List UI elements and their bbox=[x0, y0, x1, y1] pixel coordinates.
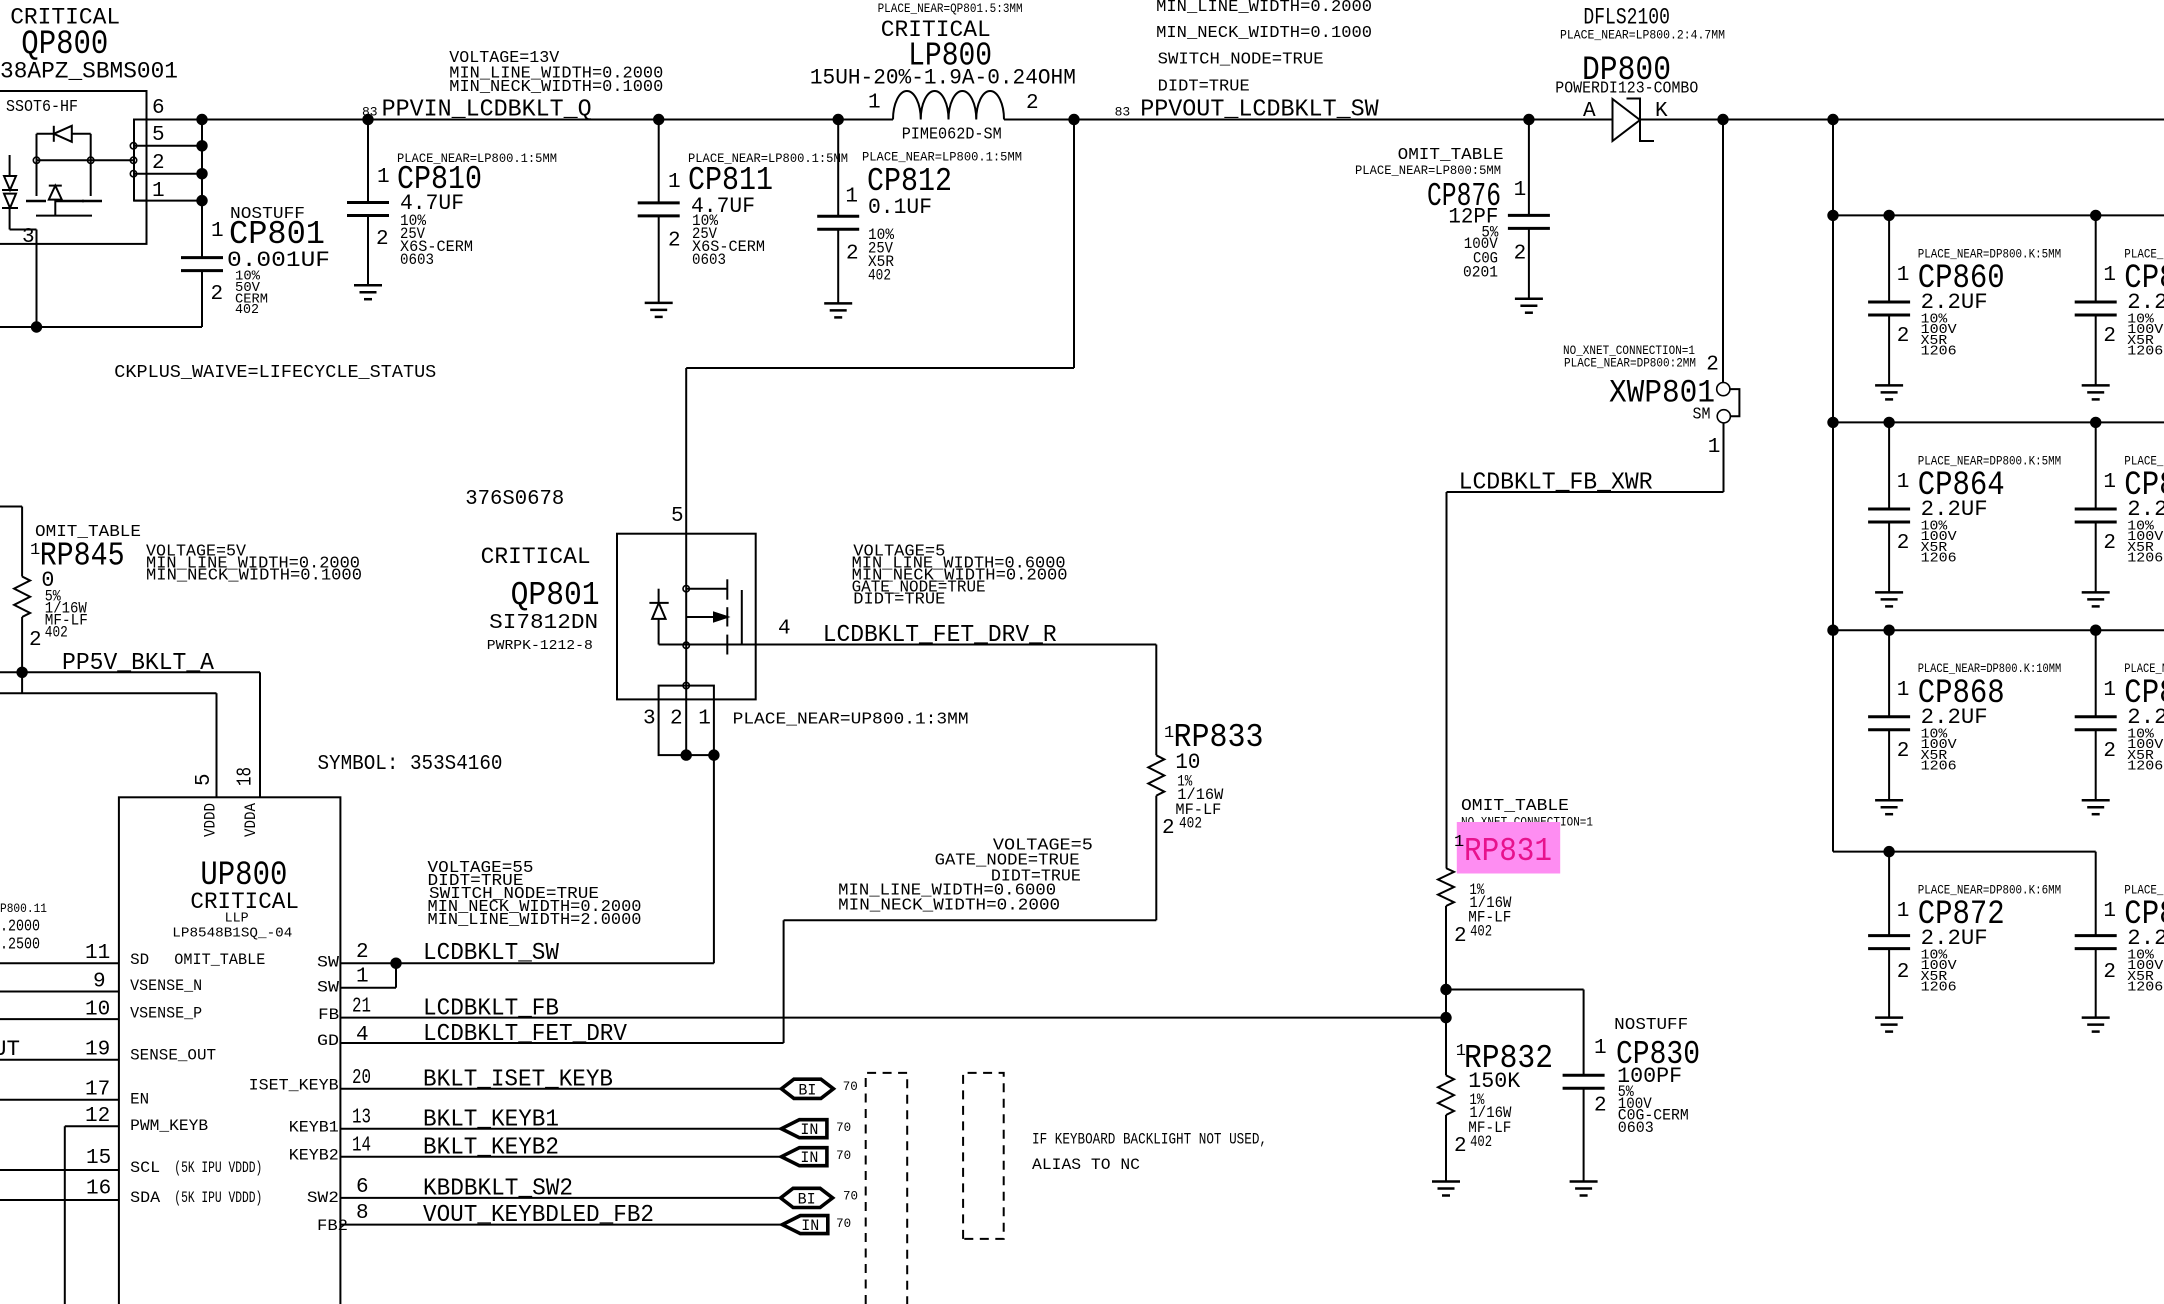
svg-text:9: 9 bbox=[93, 971, 106, 994]
svg-text:38APZ_SBMS001: 38APZ_SBMS001 bbox=[0, 59, 178, 85]
capacitor CP868 bbox=[1888, 630, 1890, 717]
junction QP801 pin2 bbox=[681, 749, 692, 760]
svg-text:FB2: FB2 bbox=[317, 1217, 348, 1235]
svg-text:KBDBKLT_SW2: KBDBKLT_SW2 bbox=[423, 1176, 573, 1203]
junction CP812 bbox=[833, 114, 844, 125]
svg-text:BI: BI bbox=[798, 1081, 816, 1099]
svg-text:VSENSE_P: VSENSE_P bbox=[130, 1005, 202, 1023]
wire VDDD supply bbox=[0, 692, 217, 694]
capacitor CP876 bbox=[1528, 120, 1530, 216]
junction QP801 pin1 bbox=[708, 749, 719, 760]
connector IN FB2 bbox=[782, 1216, 828, 1234]
svg-text:1: 1 bbox=[2103, 471, 2116, 494]
svg-text:MIN_NECK_WIDTH=0.1000: MIN_NECK_WIDTH=0.1000 bbox=[449, 77, 663, 96]
capacitor CP810 bbox=[367, 120, 369, 203]
capacitor CP873 bbox=[2095, 852, 2097, 936]
ground CP812 bbox=[824, 302, 852, 305]
svg-text:PLACE_NEAR=DP800:2MM: PLACE_NEAR=DP800:2MM bbox=[1564, 357, 1696, 371]
QP801 body diode bbox=[649, 602, 668, 604]
junction CP810 bbox=[362, 114, 373, 125]
svg-text:VDDA: VDDA bbox=[242, 802, 260, 837]
svg-text:5: 5 bbox=[671, 505, 684, 528]
junction col1 bbox=[1883, 846, 1894, 857]
svg-text:2.2UF: 2.2UF bbox=[1921, 926, 1988, 951]
svg-text:5: 5 bbox=[193, 773, 216, 786]
ground CP861 bbox=[2082, 384, 2110, 387]
svg-text:IN: IN bbox=[800, 1149, 818, 1167]
svg-text:NOSTUFF: NOSTUFF bbox=[1614, 1016, 1688, 1035]
wire QP800 pin1 bbox=[134, 200, 202, 202]
svg-text:MIN_NECK_WIDTH=0.1000: MIN_NECK_WIDTH=0.1000 bbox=[146, 566, 362, 585]
QP800 internal diode D2 bbox=[49, 185, 62, 187]
svg-text:(5K IPU VDDD): (5K IPU VDDD) bbox=[174, 1189, 262, 1207]
svg-text:0603: 0603 bbox=[400, 251, 434, 269]
svg-text:MIN_NECK_WIDTH=0.2000: MIN_NECK_WIDTH=0.2000 bbox=[838, 895, 1060, 914]
junction rail-bus bbox=[1827, 417, 1838, 428]
svg-text:PWM_KEYB: PWM_KEYB bbox=[130, 1117, 208, 1135]
svg-text:DFLS2100: DFLS2100 bbox=[1583, 5, 1670, 31]
svg-text:17: 17 bbox=[85, 1079, 110, 1102]
wire UP800 pin 19 bbox=[0, 1059, 119, 1061]
capacitor CP860 bbox=[1888, 215, 1890, 302]
svg-text:VDDD: VDDD bbox=[202, 803, 220, 837]
svg-text:1: 1 bbox=[1514, 179, 1527, 202]
junction PP5V bbox=[16, 667, 27, 678]
svg-text:LCDBKLT_FB: LCDBKLT_FB bbox=[423, 996, 559, 1023]
capacitor CP861 bbox=[2095, 215, 2097, 302]
svg-text:1: 1 bbox=[1454, 833, 1464, 852]
svg-text:1: 1 bbox=[698, 708, 711, 731]
svg-text:1: 1 bbox=[2103, 679, 2116, 702]
resistor RP831 bbox=[1438, 868, 1454, 906]
ground CP830 bbox=[1570, 1180, 1598, 1183]
ground CP869 bbox=[2082, 799, 2110, 802]
wire UP800 pin 15 bbox=[0, 1169, 119, 1171]
svg-text:RP831: RP831 bbox=[1464, 833, 1552, 870]
svg-text:1: 1 bbox=[668, 171, 681, 194]
svg-text:1206: 1206 bbox=[2127, 345, 2163, 360]
wire BKLT_KEYB1 bbox=[340, 1128, 781, 1130]
resistor RP845 bbox=[0, 506, 22, 508]
svg-text:8: 8 bbox=[356, 1202, 369, 1225]
junction col1 bbox=[1883, 625, 1894, 636]
wire QP800 pin3 bbox=[36, 230, 38, 328]
svg-text:402: 402 bbox=[1470, 1133, 1492, 1151]
QP801 pin connector box bbox=[659, 686, 714, 756]
junction pin2 bbox=[196, 168, 207, 179]
svg-text:PPVIN_LCDBKLT_Q: PPVIN_LCDBKLT_Q bbox=[382, 97, 592, 124]
svg-text:1: 1 bbox=[1897, 264, 1910, 287]
svg-text:2.2UF: 2.2UF bbox=[1921, 290, 1988, 315]
svg-text:GD: GD bbox=[317, 1032, 339, 1050]
svg-text:P800.11: P800.11 bbox=[0, 901, 47, 916]
connector BI SW2 bbox=[781, 1188, 833, 1207]
dashed group box 2 bbox=[963, 1073, 1004, 1239]
wire cap rail 5 bbox=[1833, 851, 2096, 853]
svg-text:1: 1 bbox=[1708, 436, 1721, 459]
QP801 gate bar bbox=[741, 590, 743, 645]
svg-text:11: 11 bbox=[85, 942, 110, 965]
svg-text:2: 2 bbox=[1026, 92, 1039, 115]
junction rail-bus bbox=[1827, 210, 1838, 221]
wire BKLT_KEYB2 bbox=[340, 1156, 781, 1158]
svg-text:4: 4 bbox=[356, 1024, 369, 1047]
wire UP800 pin 10 bbox=[0, 1018, 119, 1020]
ground CP872 bbox=[1875, 1016, 1903, 1019]
svg-text:.2500: .2500 bbox=[0, 936, 40, 955]
svg-text:POWERDI123-COMBO: POWERDI123-COMBO bbox=[1555, 80, 1698, 99]
svg-text:2: 2 bbox=[1514, 243, 1527, 266]
svg-text:15UH-20%-1.9A-0.24OHM: 15UH-20%-1.9A-0.24OHM bbox=[810, 66, 1076, 91]
svg-text:10: 10 bbox=[85, 999, 110, 1022]
junction rail-bus bbox=[1827, 625, 1838, 636]
svg-text:DIDT=TRUE: DIDT=TRUE bbox=[853, 590, 945, 609]
svg-text:402: 402 bbox=[868, 267, 891, 285]
svg-text:1: 1 bbox=[1897, 471, 1910, 494]
junction col2 bbox=[2090, 210, 2101, 221]
svg-text:BI: BI bbox=[798, 1190, 816, 1208]
capacitor CP872 bbox=[1888, 852, 1890, 936]
svg-text:VOUT_KEYBDLED_FB2: VOUT_KEYBDLED_FB2 bbox=[423, 1202, 654, 1229]
wire LCDBKLT_FB bbox=[340, 1017, 1446, 1019]
svg-text:PLACE_NEAR=LP800:5MM: PLACE_NEAR=LP800:5MM bbox=[1355, 164, 1501, 178]
svg-text:20: 20 bbox=[352, 1067, 371, 1090]
svg-text:2: 2 bbox=[376, 228, 389, 251]
svg-text:12: 12 bbox=[85, 1105, 110, 1128]
wire FET_DRV return bbox=[784, 919, 1157, 921]
svg-text:16: 16 bbox=[86, 1178, 111, 1201]
QP800 internal diode D1 bbox=[53, 126, 55, 142]
svg-text:UT: UT bbox=[0, 1037, 20, 1062]
QP801 body arrow bbox=[687, 616, 718, 618]
svg-text:376S0678: 376S0678 bbox=[465, 488, 564, 511]
jumper XWP801 bbox=[1722, 120, 1724, 383]
svg-text:1: 1 bbox=[868, 92, 881, 115]
svg-text:BKLT_KEYB2: BKLT_KEYB2 bbox=[423, 1135, 559, 1162]
svg-text:1: 1 bbox=[1897, 900, 1910, 923]
svg-text:LLP: LLP bbox=[225, 911, 249, 927]
junction switch node bbox=[1068, 114, 1079, 125]
wire LCDBKLT_SW bbox=[340, 962, 714, 964]
svg-text:3: 3 bbox=[643, 708, 656, 731]
wire VOUT_KEYBDLED_FB2 bbox=[340, 1224, 782, 1226]
svg-text:2: 2 bbox=[1594, 1095, 1607, 1118]
svg-text:2: 2 bbox=[1454, 1135, 1467, 1158]
capacitor CP865 bbox=[2095, 422, 2097, 509]
junction XWP801 bbox=[1717, 114, 1728, 125]
svg-text:VSENSE_N: VSENSE_N bbox=[130, 977, 202, 995]
wire LCDBKLT_FET_DRV_R bbox=[756, 644, 1157, 646]
svg-text:IN: IN bbox=[801, 1217, 819, 1235]
wire bottom return bbox=[0, 326, 202, 328]
ground CP811 bbox=[645, 302, 673, 305]
svg-text:1: 1 bbox=[377, 166, 390, 189]
junction pin1 bbox=[196, 195, 207, 206]
svg-text:0201: 0201 bbox=[1463, 264, 1498, 282]
svg-text:SW: SW bbox=[317, 979, 340, 997]
svg-text:10: 10 bbox=[1175, 750, 1200, 775]
svg-text:1206: 1206 bbox=[2127, 552, 2163, 567]
QP801 source wire bbox=[659, 644, 756, 646]
junction cap bank bbox=[1827, 114, 1838, 125]
capacitor CP801 bbox=[201, 201, 203, 258]
wire UP800 pin 17 bbox=[0, 1099, 119, 1101]
svg-text:1: 1 bbox=[356, 966, 369, 989]
svg-text:1206: 1206 bbox=[1921, 345, 1957, 360]
svg-text:SWITCH_NODE=TRUE: SWITCH_NODE=TRUE bbox=[1158, 50, 1324, 69]
QP800 internal FET bars bbox=[26, 200, 46, 203]
junction RP831-CP830 bbox=[1440, 984, 1451, 995]
svg-text:70: 70 bbox=[836, 1121, 851, 1135]
svg-text:BKLT_ISET_KEYB: BKLT_ISET_KEYB bbox=[423, 1067, 613, 1094]
capacitor CP812 bbox=[837, 120, 839, 217]
ground CP876 bbox=[1515, 297, 1543, 300]
svg-text:83: 83 bbox=[1115, 105, 1131, 120]
svg-text:PPVOUT_LCDBKLT_SW: PPVOUT_LCDBKLT_SW bbox=[1140, 97, 1379, 124]
svg-text:2.2UF: 2.2UF bbox=[1921, 497, 1988, 522]
wire PPVIN_LCDBKLT_Q bbox=[147, 119, 894, 121]
wire cap rail 3 bbox=[1833, 421, 2164, 423]
svg-text:.2000: .2000 bbox=[0, 918, 40, 937]
svg-text:IF KEYBOARD BACKLIGHT NOT USED: IF KEYBOARD BACKLIGHT NOT USED, bbox=[1032, 1131, 1267, 1149]
svg-text:A: A bbox=[1583, 100, 1596, 123]
connector BI ISET_KEYB bbox=[781, 1079, 833, 1098]
wire KBDBKLT_SW2 bbox=[340, 1197, 780, 1199]
wire BKLT_ISET_KEYB bbox=[340, 1088, 781, 1090]
svg-text:402: 402 bbox=[1179, 815, 1202, 833]
svg-text:1206: 1206 bbox=[1921, 759, 1957, 774]
capacitor CP864 bbox=[1888, 422, 1890, 509]
wire UP800 pin 16 bbox=[0, 1199, 119, 1201]
svg-text:SDA: SDA bbox=[130, 1189, 161, 1207]
wire QP800 pin5 bbox=[134, 145, 202, 147]
svg-text:PLACE_NEAR=LP800.2:4.7MM: PLACE_NEAR=LP800.2:4.7MM bbox=[1560, 29, 1725, 43]
ground CP860 bbox=[1875, 384, 1903, 387]
wire LCDBKLT_FET_DRV bbox=[340, 1042, 783, 1044]
wire UP800 pin 9 bbox=[0, 991, 119, 993]
wire QP800 pin3 internal bbox=[10, 229, 37, 231]
svg-text:402: 402 bbox=[45, 624, 68, 642]
svg-text:2.2UF: 2.2UF bbox=[2127, 497, 2164, 522]
svg-text:2: 2 bbox=[670, 708, 683, 731]
connector IN KEYB2 bbox=[781, 1148, 827, 1166]
svg-text:2: 2 bbox=[846, 243, 859, 266]
junction CP811 bbox=[653, 114, 664, 125]
wire SW pin1 bbox=[395, 963, 397, 988]
svg-text:QP801: QP801 bbox=[511, 577, 600, 614]
svg-text:1206: 1206 bbox=[2127, 981, 2163, 996]
svg-text:SI7812DN: SI7812DN bbox=[489, 612, 598, 635]
svg-text:1206: 1206 bbox=[2127, 759, 2163, 774]
transistor QP801 body bbox=[617, 534, 756, 700]
svg-text:2: 2 bbox=[29, 629, 42, 652]
svg-text:1: 1 bbox=[2103, 264, 2116, 287]
svg-text:SW2: SW2 bbox=[307, 1189, 339, 1207]
svg-text:FB: FB bbox=[318, 1006, 339, 1024]
svg-text:PWRPK-1212-8: PWRPK-1212-8 bbox=[487, 639, 593, 654]
svg-text:2: 2 bbox=[2103, 325, 2116, 348]
inductor LP800 coil bbox=[893, 91, 1004, 119]
svg-text:SENSE_OUT: SENSE_OUT bbox=[130, 1047, 216, 1065]
wire cap bank bus bbox=[1832, 120, 1834, 852]
svg-text:0603: 0603 bbox=[692, 251, 726, 269]
junction SW pins bbox=[390, 958, 401, 969]
svg-text:2: 2 bbox=[356, 941, 369, 964]
wire cap rail 4 bbox=[1833, 629, 2164, 631]
svg-text:2: 2 bbox=[668, 230, 681, 253]
svg-text:ISET_KEYB: ISET_KEYB bbox=[249, 1077, 339, 1095]
svg-text:SM: SM bbox=[1693, 406, 1711, 425]
junction CP876 bbox=[1523, 114, 1534, 125]
ground CP865 bbox=[2082, 591, 2110, 594]
svg-text:21: 21 bbox=[352, 996, 371, 1019]
wire to CP830 bbox=[1446, 989, 1584, 991]
ground CP810 bbox=[354, 284, 382, 287]
svg-text:70: 70 bbox=[843, 1190, 858, 1204]
QP800 substrate wire bbox=[36, 215, 92, 217]
svg-text:1206: 1206 bbox=[1921, 552, 1957, 567]
svg-text:EN: EN bbox=[130, 1091, 149, 1109]
svg-text:19: 19 bbox=[85, 1039, 110, 1062]
svg-text:2: 2 bbox=[152, 152, 165, 175]
svg-text:2: 2 bbox=[2103, 532, 2116, 555]
wire DP800 cathode net bbox=[1640, 119, 2164, 121]
svg-text:2.2UF: 2.2UF bbox=[2127, 705, 2164, 730]
svg-text:PLACE_NEAR=QP801.5:3MM: PLACE_NEAR=QP801.5:3MM bbox=[878, 2, 1023, 16]
svg-text:2: 2 bbox=[1897, 325, 1910, 348]
capacitor CP830 bbox=[1563, 1074, 1605, 1077]
wire PP5V_BKLT_A bbox=[0, 671, 260, 673]
capacitor CP869 bbox=[2095, 630, 2097, 717]
svg-text:LP8548B1SQ_-04: LP8548B1SQ_-04 bbox=[172, 926, 292, 942]
connector IN KEYB1 bbox=[781, 1120, 827, 1138]
svg-text:2: 2 bbox=[1897, 740, 1910, 763]
wire UP800 pin 12 bbox=[65, 1125, 119, 1127]
svg-text:70: 70 bbox=[836, 1217, 851, 1231]
junction col1 bbox=[1883, 417, 1894, 428]
svg-text:15: 15 bbox=[86, 1147, 111, 1170]
svg-text:BKLT_KEYB1: BKLT_KEYB1 bbox=[423, 1107, 559, 1134]
junction col2 bbox=[2090, 417, 2101, 428]
svg-text:SW: SW bbox=[317, 954, 340, 972]
svg-text:1: 1 bbox=[30, 541, 40, 560]
svg-text:1: 1 bbox=[1897, 679, 1910, 702]
QP800 internal zener Z1 bbox=[4, 176, 16, 190]
svg-text:70: 70 bbox=[843, 1080, 858, 1094]
QP801 channel bbox=[726, 579, 728, 599]
svg-text:PIME062D-SM: PIME062D-SM bbox=[902, 126, 1002, 145]
svg-text:18: 18 bbox=[235, 767, 258, 786]
svg-text:LCDBKLT_SW: LCDBKLT_SW bbox=[423, 940, 560, 967]
wire UP800 pin 11 bbox=[0, 962, 119, 964]
svg-text:2: 2 bbox=[1162, 817, 1175, 840]
svg-text:5: 5 bbox=[152, 124, 165, 147]
svg-text:SSOT6-HF: SSOT6-HF bbox=[6, 98, 78, 117]
svg-text:CKPLUS_WAIVE=LIFECYCLE_STATUS: CKPLUS_WAIVE=LIFECYCLE_STATUS bbox=[114, 363, 436, 383]
svg-text:2: 2 bbox=[1897, 532, 1910, 555]
svg-text:MIN_LINE_WIDTH=0.2000: MIN_LINE_WIDTH=0.2000 bbox=[1156, 0, 1372, 16]
resistor RP832 bbox=[1445, 1018, 1447, 1076]
svg-text:14: 14 bbox=[352, 1135, 371, 1158]
svg-text:IN: IN bbox=[800, 1121, 818, 1139]
wire QP801 pin5 internal bbox=[685, 534, 687, 755]
junction pin3 bbox=[31, 321, 42, 332]
ground CP868 bbox=[1875, 799, 1903, 802]
svg-text:2: 2 bbox=[1897, 961, 1910, 984]
svg-text:402: 402 bbox=[235, 303, 259, 318]
svg-text:OMIT_TABLE: OMIT_TABLE bbox=[1461, 797, 1569, 816]
wire QP800 pin bus bbox=[201, 120, 203, 201]
svg-text:KEYB2: KEYB2 bbox=[289, 1147, 339, 1165]
svg-text:402: 402 bbox=[1470, 923, 1492, 941]
svg-text:LCDBKLT_FET_DRV: LCDBKLT_FET_DRV bbox=[423, 1021, 628, 1048]
resistor RP833 bbox=[1148, 755, 1164, 795]
svg-text:13: 13 bbox=[352, 1107, 371, 1130]
svg-text:(5K IPU VDDD): (5K IPU VDDD) bbox=[174, 1159, 262, 1177]
svg-text:2: 2 bbox=[211, 283, 224, 306]
QP801 drain wire bbox=[686, 588, 727, 590]
QP800 internal node wire bbox=[37, 159, 135, 161]
svg-text:0.1UF: 0.1UF bbox=[868, 195, 932, 220]
svg-text:SD: SD bbox=[130, 951, 149, 969]
svg-text:PLACE_NEAR=UP800.1:3MM: PLACE_NEAR=UP800.1:3MM bbox=[733, 710, 969, 729]
ground RP832 bbox=[1432, 1180, 1460, 1183]
capacitor CP811 bbox=[658, 120, 660, 203]
svg-text:MIN_LINE_WIDTH=2.0000: MIN_LINE_WIDTH=2.0000 bbox=[428, 910, 642, 929]
wire cap rail 2 bbox=[1833, 214, 2164, 216]
svg-text:1: 1 bbox=[152, 180, 165, 203]
svg-text:1: 1 bbox=[211, 220, 224, 243]
transistor QP800 body bbox=[0, 91, 147, 244]
svg-text:CRITICAL: CRITICAL bbox=[481, 544, 591, 570]
svg-text:2: 2 bbox=[2103, 740, 2116, 763]
svg-text:1: 1 bbox=[1594, 1037, 1607, 1060]
svg-text:SYMBOL: 353S4160: SYMBOL: 353S4160 bbox=[318, 753, 503, 776]
svg-text:OMIT_TABLE: OMIT_TABLE bbox=[174, 951, 265, 969]
svg-text:3: 3 bbox=[22, 226, 35, 249]
svg-text:MIN_NECK_WIDTH=0.1000: MIN_NECK_WIDTH=0.1000 bbox=[1156, 23, 1372, 42]
svg-text:ALIAS TO NC: ALIAS TO NC bbox=[1032, 1156, 1140, 1174]
svg-text:1: 1 bbox=[845, 186, 858, 209]
wire PPVOUT_LCDBKLT_SW bbox=[1004, 119, 1613, 121]
junction pin6 bbox=[196, 114, 207, 125]
ground CP873 bbox=[2082, 1016, 2110, 1019]
svg-text:2.2UF: 2.2UF bbox=[1921, 705, 1988, 730]
svg-text:2.2UF: 2.2UF bbox=[2127, 290, 2164, 315]
svg-text:6: 6 bbox=[152, 97, 165, 120]
svg-text:0603: 0603 bbox=[1618, 1119, 1654, 1137]
svg-text:KEYB1: KEYB1 bbox=[289, 1119, 339, 1137]
junction col2 bbox=[2090, 625, 2101, 636]
wire LCDBKLT_FB_XWR bbox=[1447, 491, 1724, 493]
diode DP800 symbol bbox=[1613, 99, 1641, 141]
ground CP864 bbox=[1875, 591, 1903, 594]
QP800 internal zener Z2 bbox=[4, 194, 16, 208]
wire to QP801 pin5 bbox=[1073, 120, 1075, 369]
junction col1 bbox=[1883, 210, 1894, 221]
junction pin5 bbox=[196, 140, 207, 151]
svg-text:1206: 1206 bbox=[1921, 981, 1957, 996]
dashed group box 1 bbox=[866, 1073, 908, 1304]
svg-text:OMIT_TABLE: OMIT_TABLE bbox=[1398, 146, 1504, 165]
svg-text:SCL: SCL bbox=[130, 1159, 160, 1177]
wire QP800 pin2 bbox=[134, 173, 202, 175]
junction RP831-FB bbox=[1440, 1012, 1451, 1023]
svg-text:2: 2 bbox=[1454, 925, 1467, 948]
svg-text:2: 2 bbox=[2103, 961, 2116, 984]
svg-text:6: 6 bbox=[356, 1176, 369, 1199]
svg-text:DIDT=TRUE: DIDT=TRUE bbox=[1158, 77, 1250, 96]
